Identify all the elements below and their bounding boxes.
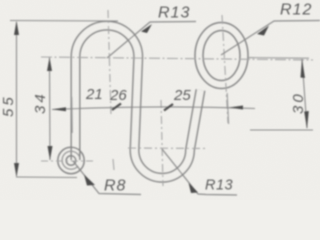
horizontal axis centerline through U and ring [41, 57, 313, 60]
chain right arrow [229, 106, 243, 110]
dim 55: bottom arrow [14, 163, 19, 177]
dim 30: top arrow [301, 59, 306, 78]
loop horizontal centerline [41, 160, 96, 162]
R13 bottom arrowhead [189, 183, 199, 194]
R13 top leader [107, 22, 196, 59]
chain tick 1 [112, 104, 121, 111]
chain left arrow [52, 107, 66, 111]
dim 55: bottom extension line [16, 176, 77, 179]
R8 arrowhead [84, 175, 95, 186]
dim 55: dimension line [16, 22, 18, 176]
dim 34: top arrow [47, 58, 52, 72]
bottom U vertical centerline [161, 100, 163, 186]
bottom U horizontal centerline [128, 147, 208, 150]
stray centerline dash below (scan skew) [113, 159, 114, 170]
R12 arrowhead [257, 26, 269, 36]
dim 30: bottom arrow [304, 111, 309, 129]
loop R8 (bottom-left wire end) [58, 147, 84, 173]
R8 leader [73, 161, 141, 195]
wire tube centerline (outer edge stroke) [76, 26, 201, 178]
loop vertical extension line [71, 97, 74, 133]
R13 top arrowhead [141, 24, 152, 33]
dim 30: bottom extension line [250, 129, 313, 131]
ring vertical centerline [222, 15, 228, 123]
dim 30: dimension line [302, 59, 307, 128]
dim 34: dimension line [49, 58, 52, 161]
R12 leader [221, 21, 320, 56]
dim chain 21 26 25: dimension line [52, 107, 255, 110]
dim 55: top extension line [10, 20, 118, 23]
top U vertical centerline [108, 10, 111, 115]
chain tick 2 [164, 104, 173, 111]
scan grain overlay [0, 0, 1, 1]
dim 34: bottom arrow [48, 146, 53, 160]
ring R12 (right wire end, slightly elliptical) [195, 23, 248, 89]
dim 55: top arrow [14, 21, 19, 35]
R13 bottom leader [162, 149, 237, 195]
